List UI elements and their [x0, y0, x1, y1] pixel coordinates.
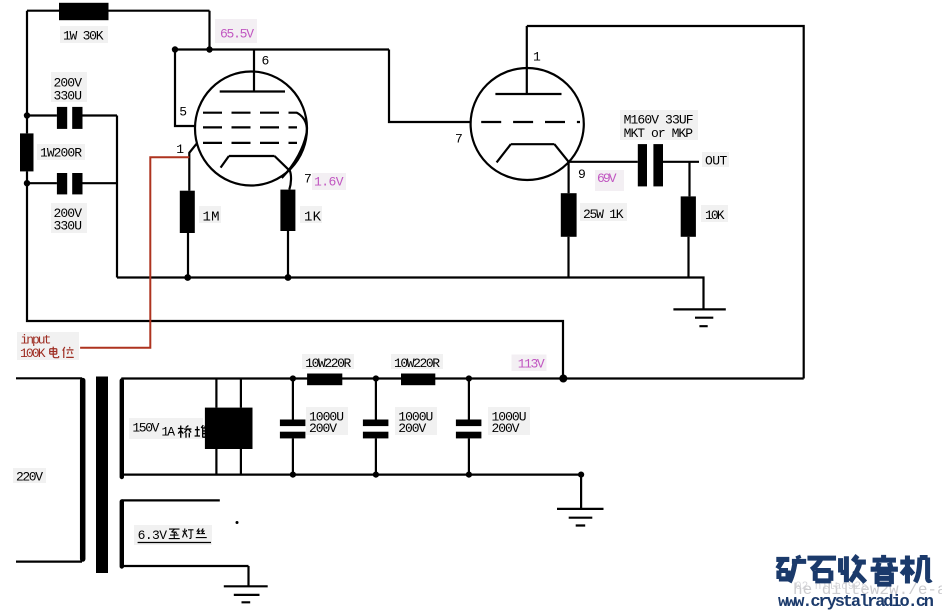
svg-text:330U: 330U: [54, 219, 83, 234]
svg-text:5: 5: [179, 105, 187, 120]
svg-text:9: 9: [578, 167, 586, 182]
svg-text:7: 7: [455, 132, 463, 147]
svg-text:10W220R: 10W220R: [305, 356, 351, 371]
svg-text:1.6V: 1.6V: [314, 175, 344, 190]
svg-text:220V: 220V: [16, 470, 43, 485]
svg-text:10W220R: 10W220R: [394, 356, 440, 371]
svg-text:1A: 1A: [161, 425, 175, 440]
svg-text:200V: 200V: [309, 421, 337, 436]
svg-text:200V: 200V: [398, 421, 426, 436]
svg-text:1: 1: [176, 142, 184, 157]
svg-text:6: 6: [262, 53, 270, 68]
svg-text:200V: 200V: [492, 421, 520, 436]
svg-text:1: 1: [533, 50, 541, 65]
svg-text:6.3V: 6.3V: [138, 528, 168, 543]
svg-text:1M: 1M: [203, 210, 220, 226]
svg-text:65.5V: 65.5V: [220, 27, 254, 42]
svg-text:7: 7: [304, 172, 312, 187]
svg-text:www.crystalradio.cn: www.crystalradio.cn: [778, 593, 934, 612]
svg-text:69V: 69V: [597, 171, 617, 186]
svg-text:150V: 150V: [132, 421, 159, 436]
svg-text:113V: 113V: [518, 356, 545, 371]
svg-text:330U: 330U: [54, 89, 83, 104]
svg-text:02 nllad925: 02 nllad925: [795, 581, 868, 593]
svg-text:10K: 10K: [705, 208, 725, 223]
svg-text:OUT: OUT: [705, 154, 727, 169]
svg-text:MKT or MKP: MKT or MKP: [624, 126, 694, 141]
svg-text:1W 30K: 1W 30K: [63, 28, 104, 43]
svg-text:1K: 1K: [304, 210, 322, 226]
svg-text:100K: 100K: [20, 346, 46, 361]
svg-text:1W200R: 1W200R: [40, 146, 82, 161]
svg-text:25W 1K: 25W 1K: [583, 207, 624, 222]
